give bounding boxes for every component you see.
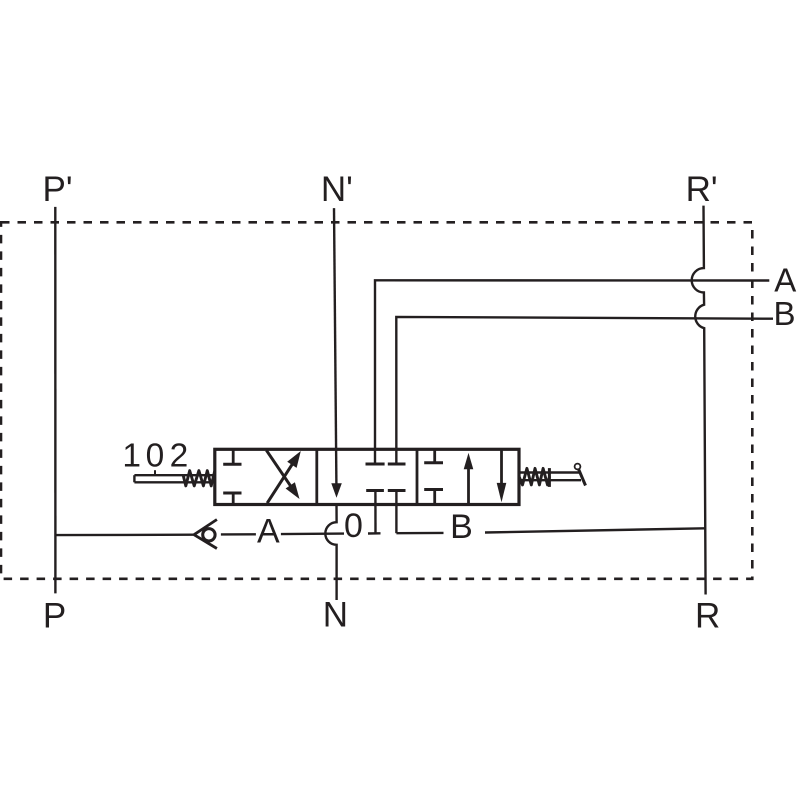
svg-text:R: R <box>695 597 720 636</box>
svg-text:R': R' <box>686 170 718 209</box>
svg-text:N: N <box>323 596 348 635</box>
svg-text:B: B <box>450 508 473 546</box>
svg-text:1: 1 <box>122 438 141 475</box>
svg-text:2: 2 <box>170 438 189 475</box>
svg-text:B: B <box>773 295 795 332</box>
svg-text:A: A <box>774 262 796 299</box>
svg-text:P: P <box>43 597 66 636</box>
svg-text:N': N' <box>321 170 353 209</box>
svg-text:P': P' <box>42 170 72 209</box>
svg-text:0: 0 <box>146 438 165 475</box>
svg-text:0: 0 <box>344 507 363 545</box>
svg-text:A: A <box>257 513 280 551</box>
